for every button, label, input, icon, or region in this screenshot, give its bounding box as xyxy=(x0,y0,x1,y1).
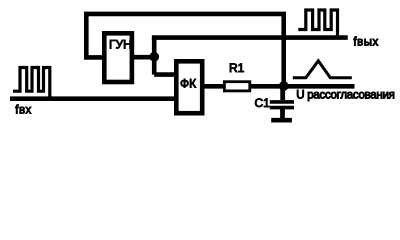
waveform input pulses xyxy=(13,68,50,99)
wire junction to phase-comparator input xyxy=(154,72,176,77)
ground xyxy=(271,118,292,123)
waveform output pulses xyxy=(298,10,337,37)
waveform error-voltage triangle xyxy=(293,61,352,78)
svg-text:ФК: ФК xyxy=(180,77,196,91)
svg-text:fвх: fвх xyxy=(15,105,31,117)
wire phase-comparator output / lowpass axis xyxy=(202,84,355,89)
svg-text:ГУН: ГУН xyxy=(109,37,132,51)
node A (VCO output junction) xyxy=(149,52,159,62)
wire fin input line xyxy=(10,96,176,101)
wire feedback loop: filter node to VCO control input (top) xyxy=(86,14,283,86)
svg-text:fвых: fвых xyxy=(353,36,378,48)
svg-text:C1: C1 xyxy=(255,96,271,110)
capacitor C1 xyxy=(280,86,285,100)
block ГУН (VCO) U1 xyxy=(104,33,132,82)
wire junction branch vertical xyxy=(152,36,157,75)
node B (filter junction) xyxy=(279,81,289,91)
svg-text:R1: R1 xyxy=(229,61,245,75)
wire VCO output to junction xyxy=(132,55,154,60)
resistor R1 xyxy=(224,82,249,91)
block ФК (phase comparator) U2 xyxy=(176,61,202,113)
svg-text:U рассогласования: U рассогласования xyxy=(296,89,394,101)
wire fout line xyxy=(152,35,348,40)
